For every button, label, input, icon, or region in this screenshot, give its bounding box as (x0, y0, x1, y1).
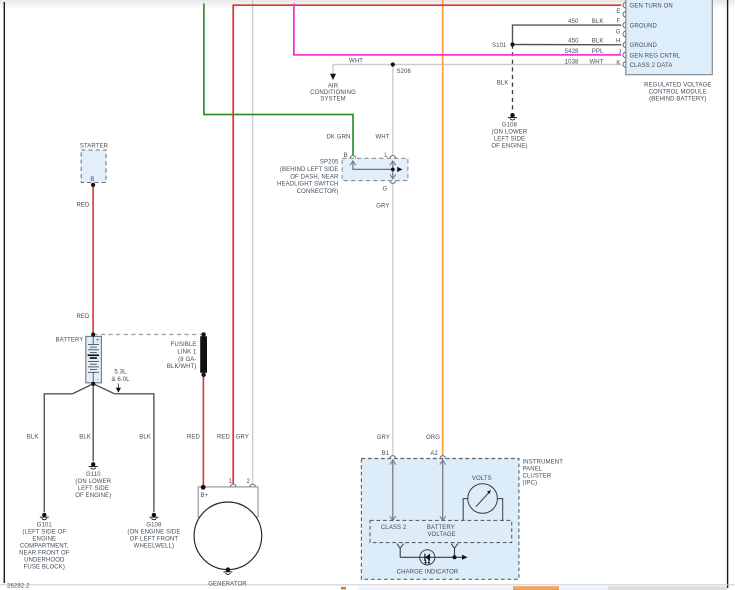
svg-text:BLK: BLK (592, 19, 604, 25)
svg-text:CHARGE INDICATOR: CHARGE INDICATOR (397, 570, 459, 576)
gauge VOLTS (463, 484, 503, 521)
svg-text:(IPC): (IPC) (523, 481, 538, 487)
node S206 junction dot (391, 62, 395, 66)
wire PPL 5428 to RVCM pin J (294, 4, 621, 55)
svg-text:ORG: ORG (426, 435, 440, 441)
svg-text:BLK: BLK (27, 435, 39, 441)
svg-text:GEN TURN ON: GEN TURN ON (630, 3, 673, 9)
node charge indicator junction dot (453, 555, 457, 559)
node S101 junction dot (510, 42, 514, 46)
svg-text:G110: G110 (86, 472, 101, 478)
SP205 internal chevron arrows (350, 161, 396, 179)
wire RED generator pin 1 to RVCM pin E (233, 5, 621, 484)
svg-text:STARTER: STARTER (80, 144, 109, 150)
fork connector right (451, 544, 458, 549)
svg-text:RED: RED (187, 435, 201, 441)
svg-text:BLK: BLK (79, 435, 91, 441)
wire RED fusible link to generator B+ (202, 375, 204, 488)
wire GRY generator pin 2 (252, 0, 254, 484)
svg-text:CONTROL MODULE: CONTROL MODULE (649, 90, 707, 96)
svg-text:BLK: BLK (139, 435, 151, 441)
connector arc SP205 pin B (350, 156, 356, 159)
charge indicator circuit (397, 544, 468, 565)
wire 450 BLK S101 to RVCM pin H (513, 44, 622, 46)
svg-text:26282.2: 26282.2 (7, 584, 30, 590)
starter box (81, 150, 106, 183)
label splice SP205 name (277, 160, 339, 195)
ground G108 (S101) symbol (508, 113, 517, 120)
svg-text:G: G (616, 30, 621, 36)
wire charge indicator horizontal (400, 556, 462, 558)
svg-text:E: E (616, 9, 620, 15)
svg-text:SP205: SP205 (320, 160, 339, 166)
label ground G108 wheelwell (127, 522, 180, 549)
wire BLK battery center branch to G110 (92, 384, 94, 461)
svg-text:1: 1 (229, 479, 233, 485)
label air conditioning system (310, 84, 356, 103)
splice SP205 box (342, 158, 408, 180)
wire dashed battery positive to fusible link (93, 334, 204, 336)
svg-text:PPL: PPL (592, 49, 604, 55)
node generator B+ dot (201, 485, 206, 490)
LED charge indicator lamp (420, 550, 435, 565)
gauge mounting bracket (463, 499, 468, 521)
svg-text:G: G (383, 186, 388, 192)
svg-text:GROUND: GROUND (630, 23, 658, 29)
arrow charge indicator output (462, 555, 468, 560)
svg-text:H: H (616, 39, 620, 45)
arrow to air conditioning system (330, 74, 336, 80)
connector arc generator pin 1 (230, 484, 236, 487)
connector arc generator pin 2 (250, 484, 256, 487)
svg-text:VOLTAGE: VOLTAGE (427, 532, 455, 538)
bottom frame line (0, 583, 735, 586)
wire 450 BLK RVCM pin F to S101 (513, 25, 622, 44)
svg-text:WHT: WHT (349, 59, 363, 65)
svg-text:INSTRUMENT: INSTRUMENT (523, 460, 564, 466)
svg-text:(LEFT SIDE OF: (LEFT SIDE OF (22, 529, 66, 535)
svg-text:5428: 5428 (565, 49, 579, 55)
SP205 junction dot and output arrow (391, 168, 395, 172)
svg-text:BLK/WHT): BLK/WHT) (167, 364, 197, 370)
wire DK GRN to SP205 pin B (204, 4, 353, 156)
svg-text:(BEHIND BATTERY): (BEHIND BATTERY) (649, 97, 706, 103)
svg-text:G101: G101 (37, 522, 53, 528)
svg-text:B: B (90, 177, 94, 183)
svg-text:OF DASH, NEAR: OF DASH, NEAR (290, 174, 339, 180)
wire WHT vertical S206 to SP205 pin L (392, 65, 394, 156)
node starter pin B dot (91, 183, 95, 187)
connector arc IPC pin B1 (390, 456, 396, 459)
battery BAT1 (86, 336, 102, 383)
IPC internal line from B1 (393, 459, 443, 520)
svg-text:PANEL: PANEL (523, 467, 543, 473)
svg-text:5.3L: 5.3L (114, 370, 127, 376)
IPC internal chevrons (390, 460, 446, 520)
svg-text:S101: S101 (492, 43, 507, 49)
svg-text:UNDERHOOD: UNDERHOOD (24, 557, 65, 563)
svg-text:WHT: WHT (376, 134, 390, 140)
svg-text:S206: S206 (397, 69, 412, 75)
svg-text:B: B (344, 153, 348, 159)
fusible link 1 element (200, 332, 207, 377)
generator GEN1 (194, 484, 262, 574)
label ground G110 (75, 472, 112, 499)
svg-text:ENGINE: ENGINE (32, 536, 56, 542)
label wire 450 BLK pin F (568, 19, 603, 25)
svg-text:VOLTS: VOLTS (472, 476, 492, 482)
svg-text:HEADLIGHT SWITCH: HEADLIGHT SWITCH (277, 182, 338, 188)
wire BLK battery left branch to G101 (44, 394, 72, 512)
ground G110 symbol (89, 462, 98, 469)
label fusible link 1 (167, 342, 197, 370)
svg-text:+: + (96, 338, 100, 344)
bottom next-page strip gray (608, 586, 727, 590)
svg-text:(ON LOWER: (ON LOWER (492, 130, 528, 136)
bottom next-page strip blue-right (559, 586, 608, 590)
label wire 1038 WHT (565, 60, 604, 66)
top toolbar shadow band (0, 0, 735, 9)
svg-text:BATTERY: BATTERY (427, 525, 455, 531)
label ground G108 engine (491, 123, 528, 150)
svg-text:GRY: GRY (236, 435, 249, 441)
svg-text:B1: B1 (382, 451, 390, 457)
svg-text:OF LEFT FRONT: OF LEFT FRONT (130, 536, 179, 542)
svg-text:(8 GA-: (8 GA- (178, 357, 196, 363)
left frame border (4, 2, 5, 583)
generator circle body (194, 502, 262, 570)
svg-text:NEAR FRONT OF: NEAR FRONT OF (19, 550, 70, 556)
svg-text:G108: G108 (146, 522, 162, 528)
svg-text:2: 2 (247, 479, 251, 485)
wire GRY SP205 pin G to IPC pin B1 (392, 183, 394, 455)
svg-text:REGULATED VOLTAGE: REGULATED VOLTAGE (644, 83, 711, 89)
svg-text:GROUND: GROUND (630, 43, 658, 49)
arrow 5.3L & 6.0L variant pointer (116, 384, 121, 393)
node battery positive dot (91, 332, 95, 336)
bottom small yellow mark (341, 587, 346, 590)
wire BLK battery right branch to G108 (114, 394, 153, 512)
wire BLK battery branch diagonals (73, 384, 115, 394)
svg-text:CLASS 2 DATA: CLASS 2 DATA (630, 63, 673, 69)
wire WHT horizontal S206 to RVCM pin K (333, 64, 621, 66)
svg-text:GRY: GRY (376, 204, 389, 210)
svg-text:WHT: WHT (589, 60, 603, 66)
label engine variants 5.3L 6.0L (111, 370, 130, 383)
svg-text:F: F (617, 19, 621, 25)
svg-text:(ON ENGINE SIDE: (ON ENGINE SIDE (127, 529, 180, 535)
svg-text:FUSIBLE: FUSIBLE (171, 342, 197, 348)
svg-text:COMPARTMENT,: COMPARTMENT, (20, 543, 69, 549)
svg-text:GEN REG CNTRL: GEN REG CNTRL (630, 54, 681, 60)
svg-text:450: 450 (568, 19, 579, 25)
bottom next-page strip blue-left (358, 586, 513, 590)
SP205 internal wiring (353, 162, 393, 179)
svg-text:(BEHIND LEFT SIDE: (BEHIND LEFT SIDE (280, 167, 339, 173)
svg-text:& 6.0L: & 6.0L (111, 377, 130, 383)
node battery negative dot (91, 382, 95, 386)
svg-text:CONDITIONING: CONDITIONING (310, 90, 356, 96)
fork connector left (397, 544, 404, 549)
svg-text:J: J (618, 49, 621, 55)
ground generator symbol (226, 567, 230, 571)
svg-text:CLASS 2: CLASS 2 (381, 525, 407, 531)
svg-text:RED: RED (217, 435, 231, 441)
svg-text:G108: G108 (502, 123, 518, 129)
wire dashed BLK S101 to G108 ground (512, 45, 514, 113)
wire ORG down to IPC pin A2 (442, 0, 444, 455)
connector arc IPC pin A2 (440, 456, 446, 459)
label battery voltage (427, 525, 456, 538)
svg-text:AIR: AIR (328, 84, 339, 90)
label RVCM name (644, 83, 711, 103)
ground G108 symbol (wheelwell) (149, 513, 158, 520)
connector arc SP205 pin L (390, 156, 396, 159)
svg-text:WHEELWELL): WHEELWELL) (134, 543, 174, 549)
svg-text:SYSTEM: SYSTEM (320, 97, 345, 103)
svg-text:A2: A2 (430, 451, 438, 457)
svg-text:450: 450 (568, 39, 579, 45)
svg-text:GENERATOR: GENERATOR (208, 582, 247, 588)
svg-text:RED: RED (76, 203, 90, 209)
svg-text:-: - (97, 378, 99, 384)
right frame border (727, 0, 728, 588)
svg-text:FUSE BLOCK): FUSE BLOCK) (24, 564, 65, 570)
IPC inner dashed class2/battery-voltage box (370, 520, 512, 542)
svg-text:RED: RED (76, 314, 90, 320)
label RVCM pin functions (630, 3, 681, 69)
svg-text:BATTERY: BATTERY (56, 338, 84, 344)
svg-text:OF ENGINE): OF ENGINE) (75, 493, 111, 499)
svg-text:GRY: GRY (377, 435, 390, 441)
svg-text:1038: 1038 (565, 60, 579, 66)
svg-text:CLUSTER: CLUSTER (523, 474, 552, 480)
svg-text:K: K (616, 60, 620, 66)
ground G101 symbol (40, 513, 49, 520)
svg-text:(ON LOWER: (ON LOWER (75, 479, 111, 485)
svg-text:LEFT SIDE: LEFT SIDE (78, 486, 109, 492)
label RVCM pin letters (616, 9, 622, 66)
svg-text:BLK: BLK (592, 39, 604, 45)
svg-text:CONNECTOR): CONNECTOR) (297, 189, 339, 195)
label ground G101 (19, 522, 70, 570)
gauge needle (476, 492, 490, 507)
svg-text:B+: B+ (201, 493, 209, 499)
module U1 regulated voltage control module box (626, 0, 713, 75)
svg-text:OF ENGINE): OF ENGINE) (491, 144, 527, 150)
svg-text:LEFT SIDE: LEFT SIDE (494, 137, 525, 143)
wire RED starter B to battery positive (92, 185, 94, 334)
module IPC instrument panel cluster box (361, 459, 519, 580)
wire WHT stub to air conditioning system (332, 65, 334, 75)
bottom next-page strip orange (513, 586, 559, 590)
svg-text:DK GRN: DK GRN (326, 134, 350, 140)
label IPC name (523, 460, 564, 487)
svg-text:L: L (384, 153, 388, 159)
connector arc SP205 pin G (390, 181, 396, 184)
svg-text:BLK: BLK (497, 80, 509, 86)
label wire 450 BLK pin H (568, 39, 603, 45)
svg-text:LINK 1: LINK 1 (177, 350, 197, 356)
label wire 5428 PPL (565, 49, 604, 55)
connector arcs RVCM left edge (623, 2, 626, 67)
